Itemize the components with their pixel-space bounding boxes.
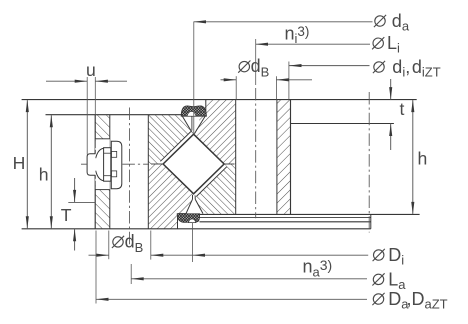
u extension lines bbox=[86, 77, 88, 155]
outer ring upper-left raceway wedge bbox=[148, 115, 192, 164]
svg-text:da: da bbox=[392, 11, 410, 34]
svg-text:h: h bbox=[39, 165, 49, 185]
dim D_a leader bbox=[96, 298, 367, 300]
dim H bbox=[26, 100, 28, 228]
centerline outer ring bolt hole bbox=[129, 108, 131, 247]
L_a extension stub bbox=[130, 264, 132, 284]
dim h left bbox=[50, 115, 52, 228]
label diameter d_B bottom bbox=[113, 237, 123, 247]
svg-text:Li: Li bbox=[387, 33, 400, 56]
nipple sleeve clip upper bbox=[111, 151, 116, 157]
top gap right wall bbox=[205, 100, 207, 116]
label diameter D_i bbox=[374, 250, 384, 260]
centerline inner ring bolt hole bbox=[255, 88, 257, 218]
dim D_i arrow on same line bbox=[193, 254, 206, 257]
T extension line bbox=[68, 201, 95, 203]
d_a extension line through seal to roller bbox=[193, 22, 195, 134]
svg-text:di,: di, bbox=[392, 57, 410, 80]
dim L_a leader bbox=[131, 278, 367, 280]
bottom face outer ring + extension bbox=[22, 228, 371, 230]
svg-text:H: H bbox=[13, 153, 26, 173]
inner ring right wall hatched band bbox=[277, 100, 291, 215]
dim L_i leader bbox=[256, 43, 371, 45]
seal recess wall outer ring bottom bbox=[177, 214, 179, 229]
grease nipple press sleeve bbox=[111, 141, 122, 188]
bottom seal gap arch bbox=[188, 219, 195, 223]
svg-text:dB: dB bbox=[251, 56, 270, 79]
bottom slot left line bbox=[192, 195, 194, 199]
label diameter d_a bbox=[375, 16, 385, 26]
dB bottom extension lines bbox=[108, 231, 110, 260]
label diameter L_a bbox=[373, 274, 383, 284]
centerline lubrication nipple bbox=[81, 163, 148, 165]
hex facet line upper bbox=[104, 152, 111, 154]
inner ring upper-right raceway wedge bbox=[195, 100, 236, 164]
dim dB bottom bbox=[89, 254, 109, 256]
outer ring left wall hatched band bbox=[95, 115, 110, 229]
grease nipple white backing bbox=[87, 141, 123, 189]
svg-text:diZT: diZT bbox=[412, 57, 441, 80]
dim t upper arrow bbox=[390, 79, 392, 100]
outer ring bolt hole right wall bbox=[147, 115, 149, 229]
svg-text:T: T bbox=[61, 205, 72, 225]
inner ring bore face bbox=[290, 100, 292, 215]
clamping plate top line bbox=[200, 216, 371, 218]
dim h right bbox=[412, 100, 414, 214]
svg-text:dB: dB bbox=[125, 232, 144, 255]
clamping plate second line bbox=[200, 221, 371, 223]
svg-text:na3): na3) bbox=[303, 257, 333, 280]
svg-text:,DaZT: ,DaZT bbox=[407, 289, 448, 312]
bottom slot right line bbox=[194, 195, 196, 199]
bottom gap funnel left line bbox=[186, 199, 193, 213]
thread depth line t bbox=[291, 123, 394, 125]
bottom seal strip bbox=[177, 214, 199, 222]
raceway apex relief line right bbox=[224, 163, 234, 165]
dB top extension lines bbox=[235, 76, 237, 99]
top seal strip bbox=[181, 106, 206, 116]
D_a extension line bbox=[95, 231, 97, 304]
nipple sleeve clip lower bbox=[111, 171, 116, 177]
outer ring lower-left raceway wedge bbox=[148, 164, 192, 229]
inner ring bolt hole left wall bbox=[235, 100, 237, 215]
svg-text:u: u bbox=[86, 60, 96, 80]
top face line inner ring + extension line full width bbox=[22, 99, 417, 101]
crossed roller (diamond) bbox=[163, 134, 224, 194]
top slot left line bbox=[191, 116, 193, 131]
label diameter d_i d_iZT bbox=[374, 62, 384, 72]
dim d_a leader bbox=[194, 21, 373, 23]
label diameter D_a D_aZT bbox=[373, 294, 383, 304]
outer ring left face bbox=[94, 115, 96, 229]
raceway clearance line upper-left bbox=[160, 132, 191, 162]
top gap funnel right line bbox=[194, 116, 205, 134]
roller clearance white backing bbox=[161, 132, 227, 197]
hex facet line lower bbox=[104, 175, 111, 177]
dim dB top: tails and arrows bbox=[221, 79, 237, 81]
nipple counterbore notch in outer ring wall bbox=[96, 139, 110, 190]
top face outer ring bbox=[46, 114, 182, 116]
grease nipple hex body bbox=[104, 148, 111, 182]
svg-text:ni3): ni3) bbox=[285, 23, 310, 46]
raceway clearance line lower-right bbox=[196, 167, 227, 197]
label diameter L_i bbox=[373, 38, 383, 48]
top gap funnel left line bbox=[182, 116, 193, 134]
centerline adjacent structure hole bbox=[368, 92, 370, 233]
label diameter d_B top bbox=[239, 61, 249, 71]
d_i extension line bbox=[288, 62, 290, 100]
dim T lower arrow bbox=[74, 229, 76, 251]
bottom face inner ring + h extension bbox=[200, 213, 420, 215]
inner ring bolt hole right wall bbox=[276, 100, 278, 215]
raceway apex relief line left bbox=[151, 163, 163, 165]
dim t lower arrow bbox=[390, 124, 392, 151]
inner ring lower-right raceway wedge bbox=[195, 164, 236, 214]
svg-text:h: h bbox=[418, 149, 428, 169]
plate right edge bbox=[370, 214, 372, 228]
top seal gap arch bbox=[187, 111, 196, 116]
seal recess ceiling bbox=[178, 213, 187, 215]
D_i extension line bbox=[192, 223, 194, 263]
dim T upper arrow bbox=[74, 178, 76, 202]
nipple cone upper bbox=[95, 148, 103, 158]
dim d_i leader bbox=[289, 65, 370, 67]
bottom gap funnel right line bbox=[195, 199, 203, 213]
ring face bore edge segments bbox=[94, 150, 96, 154]
L_i extension line bbox=[255, 39, 257, 85]
nipple cone lower bbox=[95, 171, 103, 181]
dim u: tails and arrows bbox=[46, 80, 87, 82]
outer ring bolt hole left wall bbox=[109, 115, 111, 229]
svg-text:t: t bbox=[400, 99, 405, 119]
svg-text:Di: Di bbox=[388, 245, 404, 268]
nipple cap bbox=[87, 154, 95, 175]
